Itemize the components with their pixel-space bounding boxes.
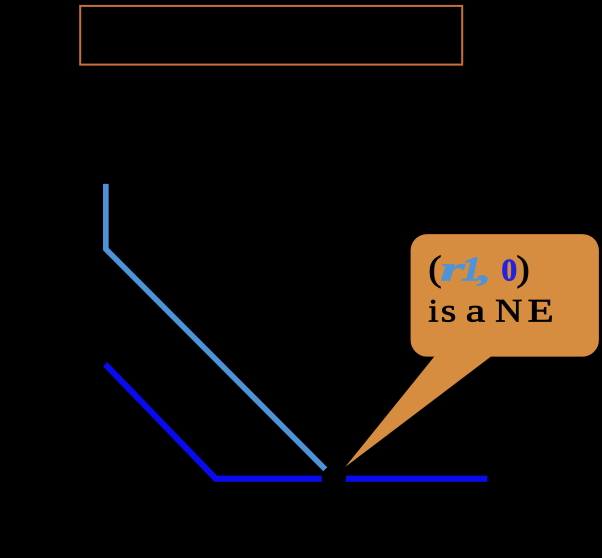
callout tail (345, 350, 499, 467)
title box (empty orange outlined rectangle) (80, 6, 462, 65)
payoff curve player 1 (blue polyline) (105, 364, 487, 479)
callout bubble (411, 234, 599, 357)
payoff curve player 2 (light blue polyline) (106, 184, 334, 478)
svg-text:(r1,0): (r1,0) (428, 248, 530, 288)
NE point (black dot over junction) (322, 466, 346, 490)
